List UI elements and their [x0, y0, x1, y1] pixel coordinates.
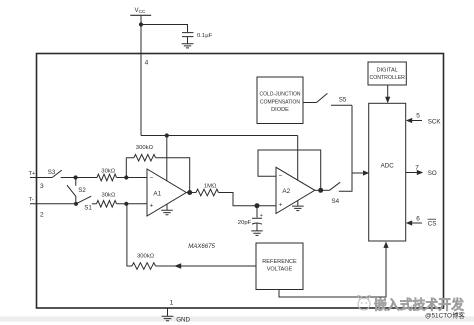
wire CJC box to S5 [303, 102, 317, 104]
wire CS pin 6 [412, 222, 423, 224]
node A2 output dot [318, 188, 323, 193]
op-amp A1 [147, 169, 186, 216]
wire VCC branch to A2 power [297, 136, 299, 181]
wire REF box to ADC bottom [279, 247, 386, 297]
svg-text:CS: CS [428, 220, 437, 227]
svg-text:SO: SO [428, 170, 437, 177]
switch S2 stub [75, 178, 77, 186]
node junction dot T- [74, 202, 78, 206]
wire SCK pin 5 [412, 120, 423, 122]
wire T- input lead pin 2 [30, 203, 76, 205]
svg-text:1: 1 [170, 300, 174, 307]
wire 30k bottom to A1 plus [117, 203, 148, 205]
svg-text:S3: S3 [48, 169, 56, 176]
wire feedback to A1 output [156, 158, 190, 193]
wire node to ADC input arrow [352, 172, 364, 174]
resistor R 300k bottom [132, 263, 156, 270]
svg-text:S1: S1 [84, 205, 92, 212]
resistor R 1M [196, 189, 219, 196]
wire A1 output [186, 192, 196, 194]
wire 1M to A2 plus node [219, 193, 277, 206]
reference voltage box [256, 243, 303, 290]
svg-text:A2: A2 [282, 188, 290, 195]
wire to bypass capacitor [141, 25, 188, 33]
svg-text:2: 2 [40, 211, 44, 218]
digital controller box [368, 62, 406, 85]
svg-text:5: 5 [416, 113, 420, 120]
svg-text:+: + [279, 201, 283, 208]
wire S3 contact to node [61, 177, 97, 179]
wire S1 contact to resistor [92, 203, 97, 205]
svg-text:300kΩ: 300kΩ [137, 254, 155, 260]
resistor R 300k feedback [126, 154, 155, 161]
wire feedback riser [125, 158, 127, 178]
svg-text:30kΩ: 30kΩ [102, 192, 116, 198]
svg-text:4: 4 [145, 59, 149, 66]
node junction dot at VCC cap tap [139, 22, 143, 26]
svg-text:S2: S2 [78, 187, 86, 194]
capacitor C bypass 0.1uF [182, 33, 194, 44]
ground under 0.1uF cap [182, 44, 194, 48]
svg-text:CONTROLLER: CONTROLLER [369, 75, 405, 81]
ground symbol GND [162, 316, 174, 321]
wire T+ input lead pin 3 [30, 177, 52, 179]
svg-text:−: − [279, 173, 283, 180]
node junction dot T+ [74, 175, 78, 179]
wire A2 output to S4 [315, 189, 330, 191]
svg-text:−: − [150, 174, 154, 181]
switch S3 blade [52, 170, 62, 177]
ground under A1 [161, 205, 173, 215]
watermark logo icon [358, 295, 370, 310]
capacitor C 20pF [252, 206, 262, 231]
node junction dot A1 minus [124, 175, 128, 179]
wire DC to ADC arrow [387, 85, 389, 98]
wire GND pin 1 stem [167, 308, 169, 316]
node A2 plus dot [255, 203, 260, 208]
wire VCC vertical down pin 4 [140, 15, 142, 135]
svg-text:GND: GND [176, 316, 190, 323]
ADC box [369, 103, 406, 241]
svg-text:30kΩ: 30kΩ [101, 168, 115, 174]
svg-text:S5: S5 [339, 97, 347, 104]
wire 30k top to A1 minus [117, 177, 148, 179]
node junction dot on VCC rail [165, 133, 169, 137]
wire SO pin 7 [406, 172, 417, 174]
svg-text:+: + [260, 213, 263, 219]
svg-text:SCK: SCK [428, 119, 442, 126]
switch S1 blade [76, 196, 91, 204]
svg-text:7: 7 [415, 164, 419, 171]
svg-text:DIODE: DIODE [271, 107, 289, 113]
cold-junction compensation diode box [257, 77, 303, 124]
wire VCC rail horizontal [141, 135, 298, 137]
svg-text:300kΩ: 300kΩ [136, 145, 154, 151]
node junction dot A1 plus [124, 202, 128, 206]
wire REF to 300k with arrow [156, 265, 257, 267]
svg-text:ADC: ADC [381, 163, 395, 170]
svg-text:S4: S4 [332, 198, 340, 205]
svg-text:VOLTAGE: VOLTAGE [267, 267, 293, 273]
svg-text:COMPENSATION: COMPENSATION [260, 100, 300, 106]
svg-text:COLD-JUNCTION: COLD-JUNCTION [260, 92, 301, 98]
svg-text:3: 3 [40, 183, 44, 190]
resistor R 30k bottom [97, 201, 117, 208]
svg-text:20pF: 20pF [238, 220, 252, 226]
resistor R 30k top [97, 174, 117, 181]
switch S2 blade [67, 185, 76, 204]
svg-text:T+: T+ [29, 171, 37, 177]
svg-text:A1: A1 [153, 191, 161, 198]
svg-text:MAX6675: MAX6675 [188, 243, 215, 250]
node VCC supply bar [130, 14, 151, 16]
chip outline box MAX6675 [37, 54, 444, 309]
svg-text:嵌入式技术开发: 嵌入式技术开发 [374, 297, 464, 313]
wire 300k bottom to A1 plus node [127, 204, 132, 266]
svg-text:1MΩ: 1MΩ [204, 184, 217, 190]
ground under 20pF [251, 231, 263, 236]
svg-text:DIGITAL: DIGITAL [377, 68, 398, 74]
svg-text:REFERENCE: REFERENCE [262, 259, 297, 265]
wire VCC branch to A1 power [166, 136, 168, 182]
node A1 output dot [187, 190, 192, 195]
svg-text:@51CTO博客: @51CTO博客 [425, 311, 465, 320]
wire S4 contact riser [339, 105, 352, 191]
wire A2 feedback loop [258, 150, 321, 190]
svg-text:T-: T- [29, 197, 34, 203]
svg-text:+: + [150, 202, 154, 209]
wire S5 contact [331, 104, 352, 106]
op-amp A2 [276, 167, 315, 213]
svg-text:0.1µF: 0.1µF [197, 33, 213, 39]
ground under A2 [292, 201, 304, 211]
svg-text:6: 6 [416, 215, 420, 222]
switch S4 blade [330, 182, 341, 190]
switch S5 blade [317, 93, 328, 102]
